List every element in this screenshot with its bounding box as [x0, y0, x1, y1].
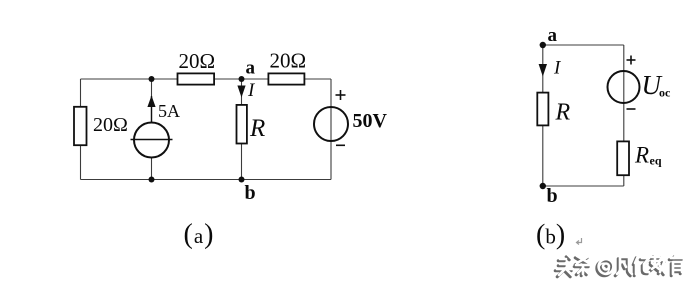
svg-text:I: I — [553, 58, 562, 79]
svg-text:5A: 5A — [158, 101, 180, 121]
wire left branch (a) — [80, 79, 82, 180]
junction dot top of current source (a) — [149, 76, 155, 82]
voltage source 50V (a) — [314, 90, 388, 145]
wire middle branch R (a) — [241, 79, 243, 180]
char yi — [633, 258, 647, 276]
svg-text:oc: oc — [659, 86, 671, 100]
svg-text:a: a — [548, 25, 558, 46]
svg-text:b: b — [547, 185, 558, 207]
char tiao — [574, 258, 588, 276]
watermark: toutiao @ fanyi education (embossed) — [555, 255, 683, 277]
node b (b) — [540, 183, 558, 207]
resistor R (b) — [537, 93, 570, 126]
current arrow I (b) — [539, 58, 562, 79]
node b (a) — [239, 177, 256, 205]
svg-text:(b): (b) — [536, 220, 565, 251]
wire right branch (a) — [330, 79, 332, 180]
resistor 20ohm left vertical (a) — [74, 107, 128, 145]
svg-text:I: I — [247, 80, 256, 101]
resistor Req (b) — [617, 141, 662, 175]
caption (b) — [536, 220, 565, 251]
wire top left segment (a) — [81, 78, 332, 80]
wire bottom (b) — [543, 185, 624, 187]
current arrow I (a) — [237, 80, 256, 101]
svg-text:20Ω: 20Ω — [270, 49, 307, 73]
wire top (b) — [543, 44, 624, 46]
node a (b) — [540, 25, 558, 48]
voltage source Uoc (b) — [608, 56, 672, 110]
wire left branch (b) — [542, 45, 544, 186]
paragraph return mark — [577, 238, 582, 245]
svg-text:eq: eq — [650, 154, 662, 168]
wire current-source branch (a) — [151, 79, 153, 180]
svg-text:R: R — [249, 115, 265, 142]
svg-text:20Ω: 20Ω — [93, 114, 128, 136]
resistor R (a) — [237, 105, 266, 144]
char jiao — [650, 257, 664, 275]
current source 5A (a) — [131, 96, 181, 158]
svg-text:R: R — [555, 100, 571, 126]
junction dot bottom of current source (a) — [149, 177, 155, 183]
caption (a) — [184, 219, 214, 250]
resistor 20ohm top-2 (a) — [268, 49, 306, 85]
wire right branch (b) — [623, 45, 625, 186]
node a (a) — [239, 58, 256, 83]
svg-text:b: b — [245, 182, 256, 204]
char tou — [555, 257, 571, 277]
resistor 20ohm top-1 (a) — [178, 49, 216, 85]
svg-text:50V: 50V — [353, 110, 388, 132]
char yu — [669, 257, 681, 276]
char fan — [615, 259, 630, 276]
svg-text:(a): (a) — [184, 219, 214, 250]
svg-text:R: R — [634, 143, 649, 168]
at sign — [597, 261, 612, 276]
svg-text:a: a — [246, 58, 256, 79]
svg-text:20Ω: 20Ω — [179, 49, 216, 73]
wire bottom (a) — [81, 179, 332, 181]
